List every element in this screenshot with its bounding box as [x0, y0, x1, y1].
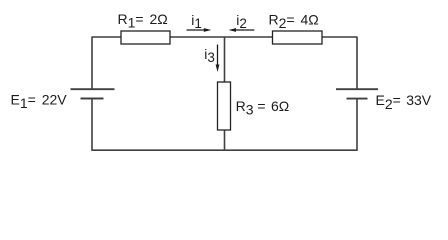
current arrow i2 [229, 28, 255, 32]
wire left-bottom: E1 to bottom-left corner, bottom wire, up to E2 [92, 99, 357, 151]
current arrow i1 [187, 28, 212, 32]
battery E1 short plate [81, 98, 104, 100]
svg-text:E1= 22V: E1= 22V [11, 91, 68, 111]
wire middle top: node to R3 [224, 37, 226, 82]
svg-text:i3: i3 [204, 46, 215, 65]
wire top-middle: R1 to R2 [170, 36, 273, 38]
svg-text:R3 = 6Ω: R3 = 6Ω [236, 98, 290, 118]
battery E2 short plate [347, 98, 368, 100]
battery E2 long plate [336, 88, 378, 90]
wire top-right: R2 to right corner down to E2 [322, 37, 357, 89]
resistor R3 [218, 82, 231, 130]
svg-text:R2= 4Ω: R2= 4Ω [269, 12, 319, 32]
svg-text:i2: i2 [236, 12, 247, 31]
svg-text:E2= 33V: E2= 33V [376, 92, 432, 112]
current arrow i3 [216, 45, 220, 73]
resistor R1 [121, 31, 170, 44]
resistor R2 [273, 31, 323, 44]
battery E1 long plate [71, 88, 115, 90]
wire top-left: left corner to R1 [92, 37, 121, 89]
wire middle bottom: R3 to bottom wire [224, 130, 226, 150]
svg-text:R1= 2Ω: R1= 2Ω [118, 11, 168, 31]
svg-text:i1: i1 [191, 12, 202, 31]
